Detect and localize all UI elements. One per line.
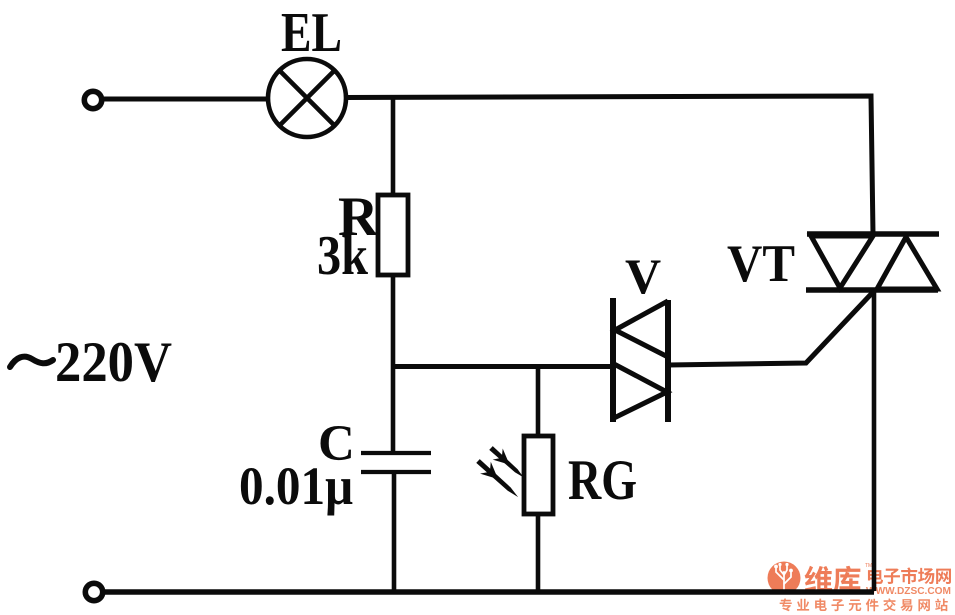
- svg-text:VT: VT: [727, 235, 795, 293]
- svg-text:TM: TM: [865, 563, 872, 569]
- svg-text:WWW.DZSC.COM: WWW.DZSC.COM: [866, 585, 951, 597]
- svg-text:EL: EL: [281, 2, 342, 64]
- svg-text:3k: 3k: [317, 225, 369, 287]
- svg-text:V: V: [625, 248, 661, 304]
- svg-text:0.01μ: 0.01μ: [239, 456, 353, 516]
- svg-text:220V: 220V: [55, 331, 172, 394]
- svg-text:RG: RG: [568, 449, 637, 512]
